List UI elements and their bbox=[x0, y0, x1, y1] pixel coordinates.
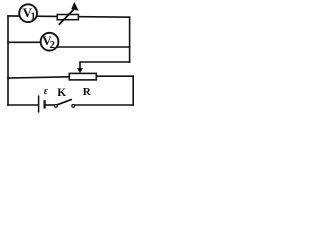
potentiometer wiper arrow shaft bbox=[79, 62, 81, 69]
wire pot left bbox=[8, 77, 69, 78]
wire right lower vertical bbox=[132, 76, 134, 105]
switch K left terminal bbox=[55, 105, 58, 108]
variable resistor (top branch) bbox=[57, 2, 78, 25]
wire V2 branch left bbox=[8, 41, 49, 43]
potentiometer wiper arrowhead bbox=[77, 68, 83, 73]
wire wiper horizontal bbox=[80, 61, 130, 63]
battery short plate bbox=[44, 100, 46, 108]
wire bottom rail left segment bbox=[8, 104, 38, 106]
wire V2 branch right bbox=[49, 46, 130, 48]
potentiometer R body bbox=[69, 73, 96, 80]
svg-text:2: 2 bbox=[50, 40, 55, 51]
svg-text:K: K bbox=[57, 87, 66, 99]
voltmeter V1 bbox=[19, 4, 37, 22]
potentiometer R bbox=[69, 62, 96, 80]
voltmeter V1 body bbox=[19, 4, 37, 22]
wire left vertical bbox=[7, 16, 9, 105]
switch K right terminal bbox=[72, 105, 75, 108]
switch K lever bbox=[57, 99, 72, 105]
variable resistor arrowhead bbox=[71, 2, 78, 11]
svg-text:R: R bbox=[83, 86, 92, 98]
wire right upper vertical bbox=[129, 17, 131, 62]
switch K bbox=[55, 99, 75, 107]
variable resistor body bbox=[57, 15, 78, 20]
wire battery-to-switch segment bbox=[46, 104, 55, 106]
wire pot right bbox=[97, 75, 133, 77]
battery long plate bbox=[38, 95, 40, 112]
wire bottom rail right segment bbox=[75, 104, 133, 106]
svg-text:1: 1 bbox=[31, 12, 36, 23]
voltmeter V2 bbox=[41, 33, 59, 51]
battery (EMF source) bbox=[39, 95, 46, 112]
variable resistor arrow shaft bbox=[59, 10, 74, 25]
voltmeter V2 body bbox=[41, 33, 59, 51]
wire top rail bbox=[8, 16, 130, 17]
